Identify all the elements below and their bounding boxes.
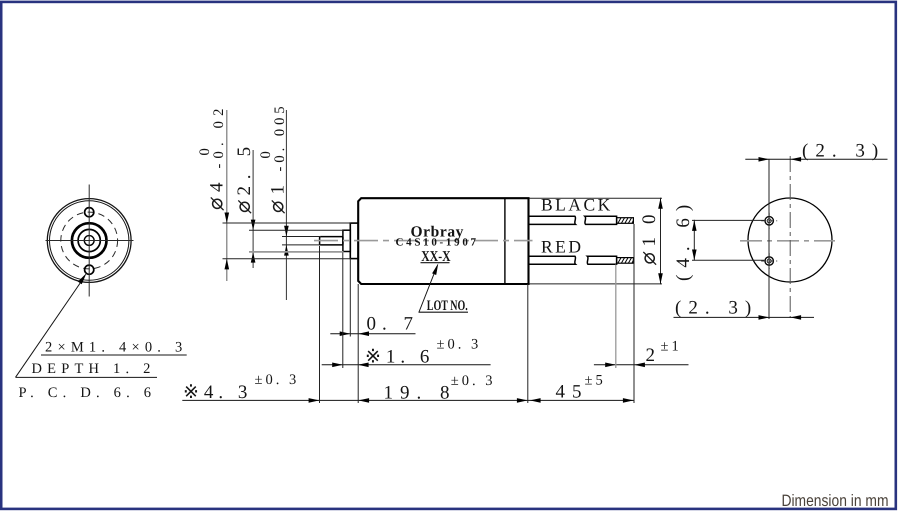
caption Dimension in mm [781,492,888,510]
front view outer circle [47,199,131,283]
svg-text:(2. 3): (2. 3) [802,141,885,162]
front view centerlines [46,185,134,297]
side view boss (phi 4) [350,223,358,259]
phi10 arrows [658,198,663,209]
svg-text:1: 1 [268,185,289,195]
rear view circle [748,198,832,282]
svg-text:C4S10-1907: C4S10-1907 [396,237,479,249]
svg-text:19. 8: 19. 8 [384,382,457,403]
rotated label phi10 [639,202,660,265]
svg-text:4: 4 [207,182,228,192]
svg-text:※1. 6: ※1. 6 [365,346,434,367]
rear view horizontal centerline [740,240,835,242]
note underline 1 [41,354,187,356]
svg-text:2: 2 [646,345,661,366]
dimension phi4 vertical line [226,110,228,281]
lead wire red segment 2 [587,256,616,264]
phi1 arrows [284,226,289,237]
dimension line 1.6 [322,364,491,366]
rear view vertical centerline [789,156,791,318]
rotated label phi1 with tolerance [258,102,289,213]
svg-text:-0. 02: -0. 02 [211,103,227,168]
rear view terminal bottom [761,253,777,269]
top 2.3 arrows [759,157,770,162]
4.3 arrow [309,398,320,403]
svg-text:LOT NO.: LOT NO. [427,298,468,314]
front view screw hole bottom [85,265,94,274]
45 arrows [530,398,541,403]
svg-text:±0. 3: ±0. 3 [451,373,496,389]
svg-text:(4. 6): (4. 6) [673,198,694,281]
lead wire black segment 2 [585,216,617,224]
dimension phi1 vertical line [285,110,287,300]
(4.6) arrows [692,220,697,231]
phi2.5 arrows [251,220,256,231]
svg-text:P. C. D. 6. 6: P. C. D. 6. 6 [19,385,157,401]
rotated label phi2.5 [234,140,255,213]
LOT NO. leader line [419,267,437,313]
extension lines for shaft diameters [223,223,352,259]
LOT NO. leader arrowhead [432,263,438,275]
side view step (phi 2.5) [343,230,350,251]
svg-text:2×M1. 4×0. 3: 2×M1. 4×0. 3 [45,340,187,356]
side view shaft (phi 1) [320,237,343,245]
motor body end cap line [504,199,506,284]
rear view terminal extension line vertical [768,159,770,319]
lead wire red segment 1 [529,256,576,264]
svg-text:(2. 3): (2. 3) [675,297,758,318]
rear view terminal top [761,213,777,229]
svg-text:RED: RED [541,236,584,256]
dimension line 2 (plus minus 1) [594,364,689,366]
bottom extension lines [320,224,635,403]
leader line to screw hole [16,278,85,378]
dimension phi2.5 vertical line [252,150,254,268]
svg-text:±1: ±1 [661,339,682,355]
lead wire black segment 1 [529,216,576,224]
0.7 arrows [340,331,351,336]
motor body [358,198,528,284]
phi10 dimension line [660,198,662,284]
extension lines body to phi10 [530,198,663,284]
lead wire red stripped end [617,258,634,264]
rotated label phi4 with tolerance [197,103,228,210]
lead wire black stripped end [617,218,634,224]
XX-X underline [421,262,450,264]
19.8 arrows [358,398,369,403]
svg-text:±0. 3: ±0. 3 [255,372,300,388]
front view shaft circle [84,236,94,246]
front view P.C.D. dashed circle [61,212,118,269]
svg-text:10: 10 [639,202,660,247]
side view centerline [314,240,533,242]
dimension line 0.7 [330,333,415,335]
svg-text:±0. 3: ±0. 3 [437,337,482,353]
svg-text:2. 5: 2. 5 [234,140,255,195]
svg-text:-0. 005: -0. 005 [272,102,288,171]
extension lines rear terminals [692,220,764,260]
svg-text:DEPTH 1. 2: DEPTH 1. 2 [32,361,156,377]
svg-text:※4. 3: ※4. 3 [183,382,252,403]
(4.6) dimension line [693,220,695,261]
rotated label (4.6) [673,198,694,281]
note underline 2 [16,376,158,378]
svg-text:BLACK: BLACK [541,195,613,215]
bottom 2.3 arrows [759,315,770,320]
front view bearing boss circle [72,223,107,258]
LOT NO. underline [419,311,469,313]
1.6 arrows [332,363,343,368]
phi4 arrows [225,213,230,224]
front view inner circle [78,229,100,251]
2 arrows [605,363,616,368]
leader arrowhead [78,273,87,284]
gray extension line hatch start [615,265,617,369]
LOT NO. text [427,298,468,314]
svg-text:Dimension in mm: Dimension in mm [781,492,888,510]
svg-text:0. 7: 0. 7 [367,314,420,335]
bottom 2.3 dimension line [674,316,815,318]
svg-text:±5: ±5 [585,373,606,389]
main dimension line y400 [182,399,634,401]
gray extension line phi2.5 bottom [249,251,344,253]
top 2.3 dimension line [745,158,887,160]
front view screw hole top [85,208,94,217]
XX-X marking [421,249,450,265]
